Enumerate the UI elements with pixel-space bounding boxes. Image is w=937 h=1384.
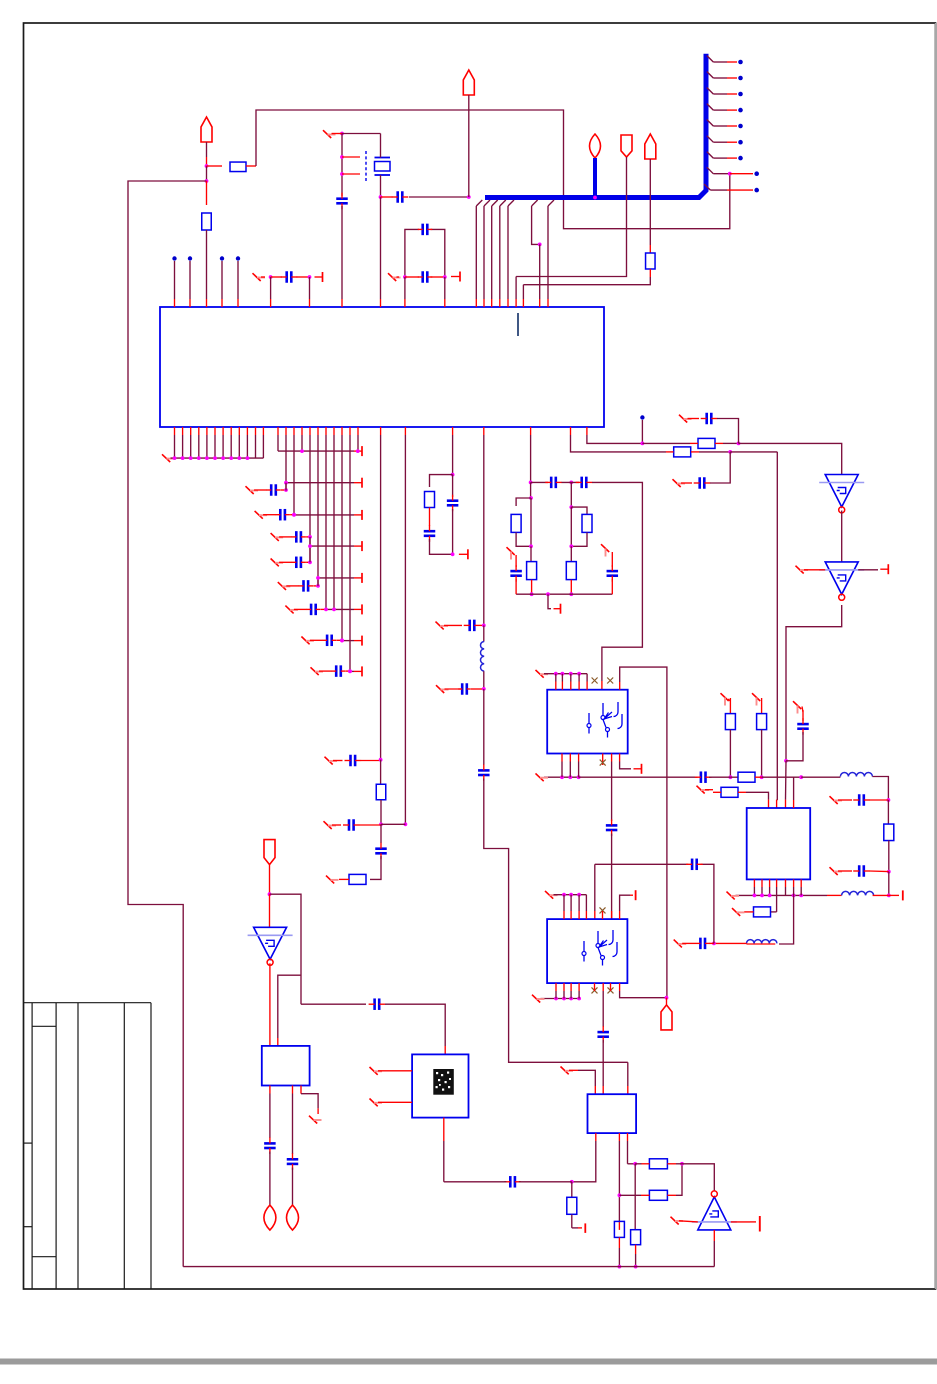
node junction xyxy=(577,672,581,676)
pin wire nc xyxy=(602,911,604,919)
wire xyxy=(739,443,842,474)
pin wire xyxy=(206,427,208,458)
node junction xyxy=(887,894,891,898)
wire xyxy=(430,539,453,554)
pin wire xyxy=(333,427,335,609)
wire xyxy=(516,498,531,506)
node junction xyxy=(308,544,312,548)
pin wires bottom rail xyxy=(736,879,804,897)
pin wire xyxy=(594,864,596,919)
wire xyxy=(385,1004,445,1046)
inverter U8 xyxy=(692,1191,737,1230)
node junction xyxy=(340,638,344,642)
wire xyxy=(263,514,276,516)
pin wire xyxy=(230,427,232,458)
terminal T4 xyxy=(554,604,561,614)
pin wire xyxy=(530,427,532,482)
bus entry BR2 with connector pin xyxy=(707,72,743,81)
node junction xyxy=(593,196,597,200)
pin wire right xyxy=(627,1133,629,1164)
node junction xyxy=(577,775,581,779)
wire xyxy=(332,824,341,826)
capacitor C28 xyxy=(606,819,618,836)
node junction xyxy=(712,942,716,946)
opto-isolator U4 xyxy=(547,690,628,754)
pin wire xyxy=(293,427,295,515)
wire xyxy=(888,872,890,896)
pin wire xyxy=(555,674,557,690)
node junction xyxy=(213,456,217,460)
wire xyxy=(838,799,852,801)
wire xyxy=(319,670,332,672)
no-connect X xyxy=(536,670,549,678)
capacitor C4 loop xyxy=(405,224,445,277)
pin wire to flag node xyxy=(620,983,667,998)
node junction xyxy=(887,870,891,874)
wire xyxy=(611,834,613,920)
wire xyxy=(642,442,690,444)
capacitor C1 xyxy=(271,276,282,278)
terminal T xyxy=(354,478,362,488)
node junction xyxy=(561,672,565,676)
wire xyxy=(206,142,208,157)
wire xyxy=(870,870,889,873)
pin wire long chain B xyxy=(381,427,407,826)
wire xyxy=(360,824,382,826)
terminal T xyxy=(354,510,362,520)
node junction xyxy=(451,473,455,477)
wire xyxy=(269,1152,271,1206)
no-connect X xyxy=(561,1067,574,1075)
no-connect X xyxy=(326,876,339,884)
resistor R19 xyxy=(649,1190,667,1200)
bus entry BR9 with connector pin xyxy=(704,184,759,192)
transistor block U7 xyxy=(588,1094,637,1133)
no-connect X xyxy=(721,693,729,705)
node junction xyxy=(634,1265,638,1269)
node junction xyxy=(284,481,288,485)
terminal T xyxy=(354,604,362,614)
terminal T3 xyxy=(459,549,468,559)
wire xyxy=(635,1163,641,1165)
pin wire cap chain xyxy=(602,983,604,1027)
no-connect X xyxy=(311,667,324,675)
node junction xyxy=(340,172,344,176)
node junction xyxy=(784,759,788,763)
wire xyxy=(717,419,739,444)
wire xyxy=(430,475,453,487)
wire xyxy=(838,870,852,872)
bus entry BR7 with connector pin xyxy=(707,152,743,161)
capacitor C3 xyxy=(381,196,393,198)
bus entry BL2 xyxy=(484,200,490,307)
resistor R16 xyxy=(705,787,769,808)
io flag FL1 xyxy=(264,1205,276,1230)
node junction xyxy=(680,1162,684,1166)
wire xyxy=(269,894,271,927)
nc cross marks xyxy=(592,983,614,993)
node junction xyxy=(237,456,241,460)
terminal T xyxy=(354,666,362,676)
wire xyxy=(619,1194,641,1196)
inductor L2 xyxy=(840,773,872,777)
pin xyxy=(776,800,778,808)
capacitor C7 xyxy=(275,509,290,521)
inverter U3 xyxy=(819,562,864,600)
wire xyxy=(254,489,267,491)
no-connect X xyxy=(793,701,801,713)
pin wire to terminal xyxy=(620,895,630,919)
wire xyxy=(429,508,431,527)
no-connect X xyxy=(271,559,284,567)
wire xyxy=(516,533,531,547)
terminal T7 xyxy=(889,890,903,900)
pin wire xyxy=(586,674,588,690)
opto-isolator U6 xyxy=(547,919,627,983)
opto U4 top rail wire xyxy=(544,673,587,675)
node junction xyxy=(292,513,296,517)
resistor R8 xyxy=(530,546,532,561)
wire pin xyxy=(380,197,382,299)
wire xyxy=(530,498,532,546)
wire xyxy=(519,1181,572,1183)
node junction xyxy=(292,513,296,517)
wire xyxy=(292,1168,294,1206)
rail wire xyxy=(350,670,354,672)
no-connect X xyxy=(324,821,337,829)
power flag PF2 xyxy=(463,70,474,95)
terminal T1 xyxy=(315,272,323,282)
capacitor C27 xyxy=(694,477,711,489)
pin xyxy=(601,681,603,689)
node junction xyxy=(443,275,447,279)
resistor R20 xyxy=(649,1159,667,1169)
pin wire xyxy=(578,895,580,919)
wire xyxy=(346,670,350,672)
wire xyxy=(569,1069,578,1071)
no-connect X xyxy=(673,479,686,487)
capacitor C38 xyxy=(287,1153,299,1170)
pin wire xyxy=(570,895,572,919)
bus entry BL3 xyxy=(492,200,498,307)
node junction xyxy=(618,1193,622,1197)
node junction xyxy=(577,893,581,897)
pin wire to right vertical xyxy=(620,667,667,998)
wire xyxy=(649,159,651,245)
pin wire xyxy=(317,427,319,586)
power flag PF7 xyxy=(264,840,275,865)
node junction xyxy=(197,456,201,460)
pin red xyxy=(611,911,613,919)
node junction xyxy=(467,195,471,199)
pin wire xyxy=(309,427,311,562)
pin wire to resistor xyxy=(771,879,777,912)
wire xyxy=(206,166,208,181)
wire xyxy=(571,507,587,514)
capacitor C32 xyxy=(695,938,710,950)
node junction xyxy=(268,892,272,896)
wire stub xyxy=(342,173,360,175)
viewport right edge line xyxy=(935,23,937,1289)
wire pin xyxy=(515,277,517,300)
node junction xyxy=(205,164,209,168)
wire to cap row xyxy=(301,1003,366,1005)
capacitor C30 xyxy=(853,794,870,806)
wire xyxy=(676,1164,682,1196)
node junction xyxy=(379,195,383,199)
pin wire xyxy=(325,427,327,609)
pin wire to terminal xyxy=(620,754,631,769)
wire pin xyxy=(309,277,311,299)
power flag PF1 xyxy=(201,117,212,142)
opto U4 chain pin wire xyxy=(611,754,613,822)
rail wire xyxy=(286,482,354,484)
node junction xyxy=(205,456,209,460)
crystal Y1 xyxy=(375,134,391,198)
no-connect X xyxy=(246,486,259,494)
node junction xyxy=(308,560,312,564)
connector stub pin P2 xyxy=(188,256,192,307)
node junction xyxy=(324,608,328,612)
node junction xyxy=(569,544,573,548)
wire xyxy=(571,533,587,547)
no-connect X xyxy=(601,544,609,556)
ADC block U11 xyxy=(412,1054,468,1117)
wire xyxy=(342,133,381,135)
bottom gray divider bar xyxy=(0,1359,937,1365)
node junction xyxy=(546,592,550,596)
capacitor C25 xyxy=(611,552,613,567)
wire xyxy=(397,276,400,278)
wire xyxy=(310,639,323,641)
node junction xyxy=(887,798,891,802)
comparator block U10 xyxy=(262,1046,310,1086)
wire xyxy=(405,276,419,278)
power flag PF5 xyxy=(645,134,656,159)
pin wire nc xyxy=(602,754,604,766)
pin wire xyxy=(238,427,240,458)
nc cross mark xyxy=(600,760,606,766)
terminal T2 xyxy=(451,272,460,282)
capacitor C13 xyxy=(331,665,346,677)
capacitor C31 xyxy=(853,865,870,877)
capacitor C35 xyxy=(504,1176,521,1188)
wire xyxy=(570,507,572,546)
node junction xyxy=(379,822,383,826)
wire xyxy=(337,639,342,641)
node junction xyxy=(562,893,566,897)
resistor R13 xyxy=(725,698,735,777)
wire pin xyxy=(444,277,446,299)
pin wires top xyxy=(793,777,795,808)
wire xyxy=(262,435,264,458)
no-connect X xyxy=(674,940,687,948)
bus entry BL4 xyxy=(500,200,506,307)
node junction xyxy=(379,758,383,762)
node junction xyxy=(308,535,312,539)
pin wire xyxy=(357,427,359,451)
resistor R2 xyxy=(206,181,208,205)
node junction xyxy=(569,481,573,485)
pin wire xyxy=(190,427,192,458)
resistor R6 xyxy=(425,492,435,508)
pin wire xyxy=(214,427,216,458)
wire pin xyxy=(341,206,343,299)
node junction xyxy=(569,672,573,676)
node junction xyxy=(269,275,273,279)
wire riser xyxy=(701,864,714,943)
pin wire xyxy=(182,427,184,458)
node junction xyxy=(577,997,581,1001)
node junction xyxy=(340,132,344,136)
resistor R1 xyxy=(207,165,223,167)
node junction xyxy=(246,456,250,460)
opto U4 bottom rail xyxy=(544,776,579,778)
wire xyxy=(531,481,548,483)
bus entry BL5 xyxy=(508,200,514,307)
pin wire xyxy=(255,427,257,458)
node junction xyxy=(229,456,233,460)
io flag FL2 xyxy=(287,1205,299,1230)
wire gnd stub xyxy=(548,594,551,609)
pin wire xyxy=(174,427,176,458)
wire xyxy=(744,911,754,913)
wire xyxy=(269,865,271,895)
bus main xyxy=(485,54,706,198)
rail wire xyxy=(342,640,354,642)
capacitor C37 xyxy=(264,1137,276,1154)
capacitor C34 xyxy=(597,1026,609,1043)
capacitor C8 xyxy=(291,531,306,543)
wire cap jog xyxy=(285,483,287,491)
wire xyxy=(870,799,889,801)
terminal T6 xyxy=(634,764,642,774)
node junction xyxy=(569,893,573,897)
node junction xyxy=(554,672,558,676)
bottom rail wire xyxy=(516,593,612,595)
pin wire long chain A xyxy=(380,427,382,760)
rail wire xyxy=(318,577,354,579)
comparator pin wire B xyxy=(292,1086,294,1155)
node junction xyxy=(221,456,225,460)
pin wire xyxy=(198,427,200,458)
pin wire xyxy=(246,427,248,458)
wire xyxy=(682,942,695,944)
no-connect X xyxy=(278,582,291,590)
no-connect X xyxy=(830,796,843,804)
node junction xyxy=(570,1180,574,1184)
no-connect X xyxy=(325,757,338,765)
pin wire xyxy=(561,754,563,778)
node junction xyxy=(316,584,320,588)
capacitor C21 xyxy=(478,764,490,781)
node junction xyxy=(300,449,304,453)
no-connect X xyxy=(162,454,175,462)
pin wire xyxy=(563,983,565,998)
node junction xyxy=(173,456,177,460)
rail wire xyxy=(310,545,354,547)
capacitor C22 xyxy=(545,477,562,489)
wire xyxy=(286,585,299,587)
no-connect X xyxy=(388,273,401,281)
wire xyxy=(279,536,292,538)
capacitor C11 xyxy=(306,604,321,616)
node junction xyxy=(189,456,193,460)
pin wire xyxy=(341,427,343,641)
capacitor C2 xyxy=(336,193,348,210)
no-connect X xyxy=(271,533,284,541)
terminal T10 xyxy=(750,1216,760,1232)
node junction xyxy=(316,576,320,580)
node junction xyxy=(205,179,209,183)
wire xyxy=(444,624,462,626)
bus entry BR4 with connector pin xyxy=(707,104,743,113)
resistor R15 xyxy=(884,800,894,872)
wire xyxy=(445,688,463,690)
power flag PF4 xyxy=(621,135,632,157)
wire xyxy=(306,561,310,563)
wire xyxy=(804,569,825,571)
pin wire xyxy=(578,983,580,998)
no-connect X xyxy=(436,622,449,630)
wire xyxy=(570,482,572,507)
no-connect X xyxy=(507,547,515,559)
wire to far-left rail xyxy=(128,181,207,1267)
no-connect X xyxy=(253,273,266,281)
pin wire lower xyxy=(571,427,667,452)
wire xyxy=(341,134,343,197)
resistor R11 xyxy=(698,438,715,448)
pin wire xyxy=(285,427,287,491)
node junction xyxy=(633,1162,637,1166)
node junction xyxy=(529,481,533,485)
wire xyxy=(679,1221,698,1222)
rail wire xyxy=(326,608,354,610)
wire xyxy=(484,779,628,1063)
no-connect X xyxy=(532,995,545,1003)
wire branch xyxy=(278,975,301,1038)
opto U6 top rail wire xyxy=(554,894,587,896)
wire xyxy=(333,760,343,762)
bus entry BL1 xyxy=(476,200,482,307)
resistor R17 xyxy=(754,907,771,917)
wire xyxy=(290,514,294,516)
pin xyxy=(594,1086,596,1094)
pin wire xyxy=(569,754,571,778)
wire xyxy=(710,452,730,483)
capacitor C16 xyxy=(380,824,382,843)
resistor R14 xyxy=(757,698,767,777)
pin wire xyxy=(585,895,587,919)
pin wire xyxy=(561,674,563,690)
no-connect X xyxy=(323,130,336,138)
wire xyxy=(261,276,265,278)
wire cap drop link xyxy=(317,578,319,586)
pin wire xyxy=(452,427,454,475)
wire xyxy=(378,1101,412,1103)
dashed link line xyxy=(365,151,367,181)
IC U1 inner tick mark xyxy=(517,313,519,336)
node junction xyxy=(332,608,336,612)
IC U1 main MCU block xyxy=(160,307,604,427)
opto U6 bottom rail xyxy=(541,998,580,1000)
pin wire xyxy=(301,427,303,451)
node junction xyxy=(403,275,407,279)
node junction xyxy=(356,449,360,453)
resistor R9 xyxy=(582,514,592,532)
wire xyxy=(306,536,310,538)
bus entry BR8 with connector pin xyxy=(707,167,759,176)
